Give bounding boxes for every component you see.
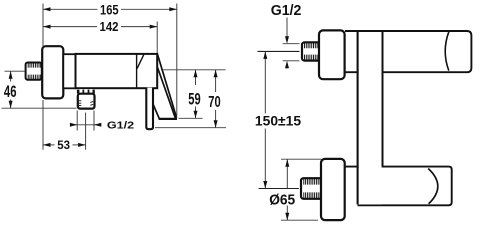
outlet down-pipe (left view) [146,88,153,130]
extension line flange bottom (Ø65) [281,219,318,221]
dimension 59 [188,70,200,119]
dimension 46 extension (inlet axis) [5,70,26,72]
G1/2 outlet extension lines [76,111,78,131]
svg-text:G1/2: G1/2 [107,121,135,132]
wall flange (left view) [42,46,63,98]
extension line pipe bottom [155,127,226,129]
svg-text:53: 53 [57,138,70,152]
inlet thread nipple (left) [26,63,42,80]
dimension 150±15 [255,51,301,188]
dimension 142 [43,19,157,34]
dimension 46 extension (outlet bottom, long line) [2,107,77,109]
dimension 53 [43,138,86,152]
bottom arm end-cap arc [428,169,438,204]
bottom thread nipple (right view) [301,178,322,199]
extension line x=43 (top segment) [42,4,44,47]
lever handle (left view) [153,55,177,119]
svg-text:142: 142 [100,19,119,34]
top wall flange (right view) [319,30,345,79]
outlet centre extension line [85,113,87,150]
dimension G1/2 (outlet) [70,121,135,132]
svg-text:59: 59 [188,89,200,108]
outlet thread nipple (bottom, left view) [78,94,95,109]
body internal vertical line [136,55,138,88]
extension line top axis [258,50,300,52]
bottom arm cylinder [345,167,452,206]
top arm cylinder [345,31,471,72]
extension line body right edge [156,22,158,54]
top arm end-cap arc [445,32,449,71]
outlet knurled ring [77,89,95,94]
extension line x=43 (bottom segment) [42,100,44,150]
dimension 46 [4,71,17,108]
svg-text:G1/2: G1/2 [271,3,302,19]
vertical tube connecting arms [358,32,383,205]
leader arrow from G1/2 down to thread top [285,18,289,44]
main body (left view) [76,54,158,88]
svg-text:150±15: 150±15 [255,113,301,129]
svg-text:165: 165 [100,3,119,18]
svg-text:70: 70 [208,94,220,111]
top thread nipple (right view) [302,42,321,60]
dimension 70 [208,70,220,128]
svg-text:46: 46 [4,82,17,101]
dimension 165 [43,3,177,18]
bottom wall flange (right view) [321,159,345,220]
extension line lever bottom [179,117,203,119]
extension line thread top (right) [283,43,300,45]
extension line bottom axis [259,188,299,190]
arrow up to thread bottom [285,61,289,69]
extension line flange top (Ø65) [281,158,322,160]
extension line lever tip [176,4,178,116]
spacer ring between flange and body [63,54,75,88]
notch diagonal on body [137,55,144,69]
extension line thread bottom (right) [283,60,300,62]
dimension Ø65 [269,159,295,220]
svg-text:Ø65: Ø65 [269,191,295,208]
extension line handle top [163,69,226,71]
